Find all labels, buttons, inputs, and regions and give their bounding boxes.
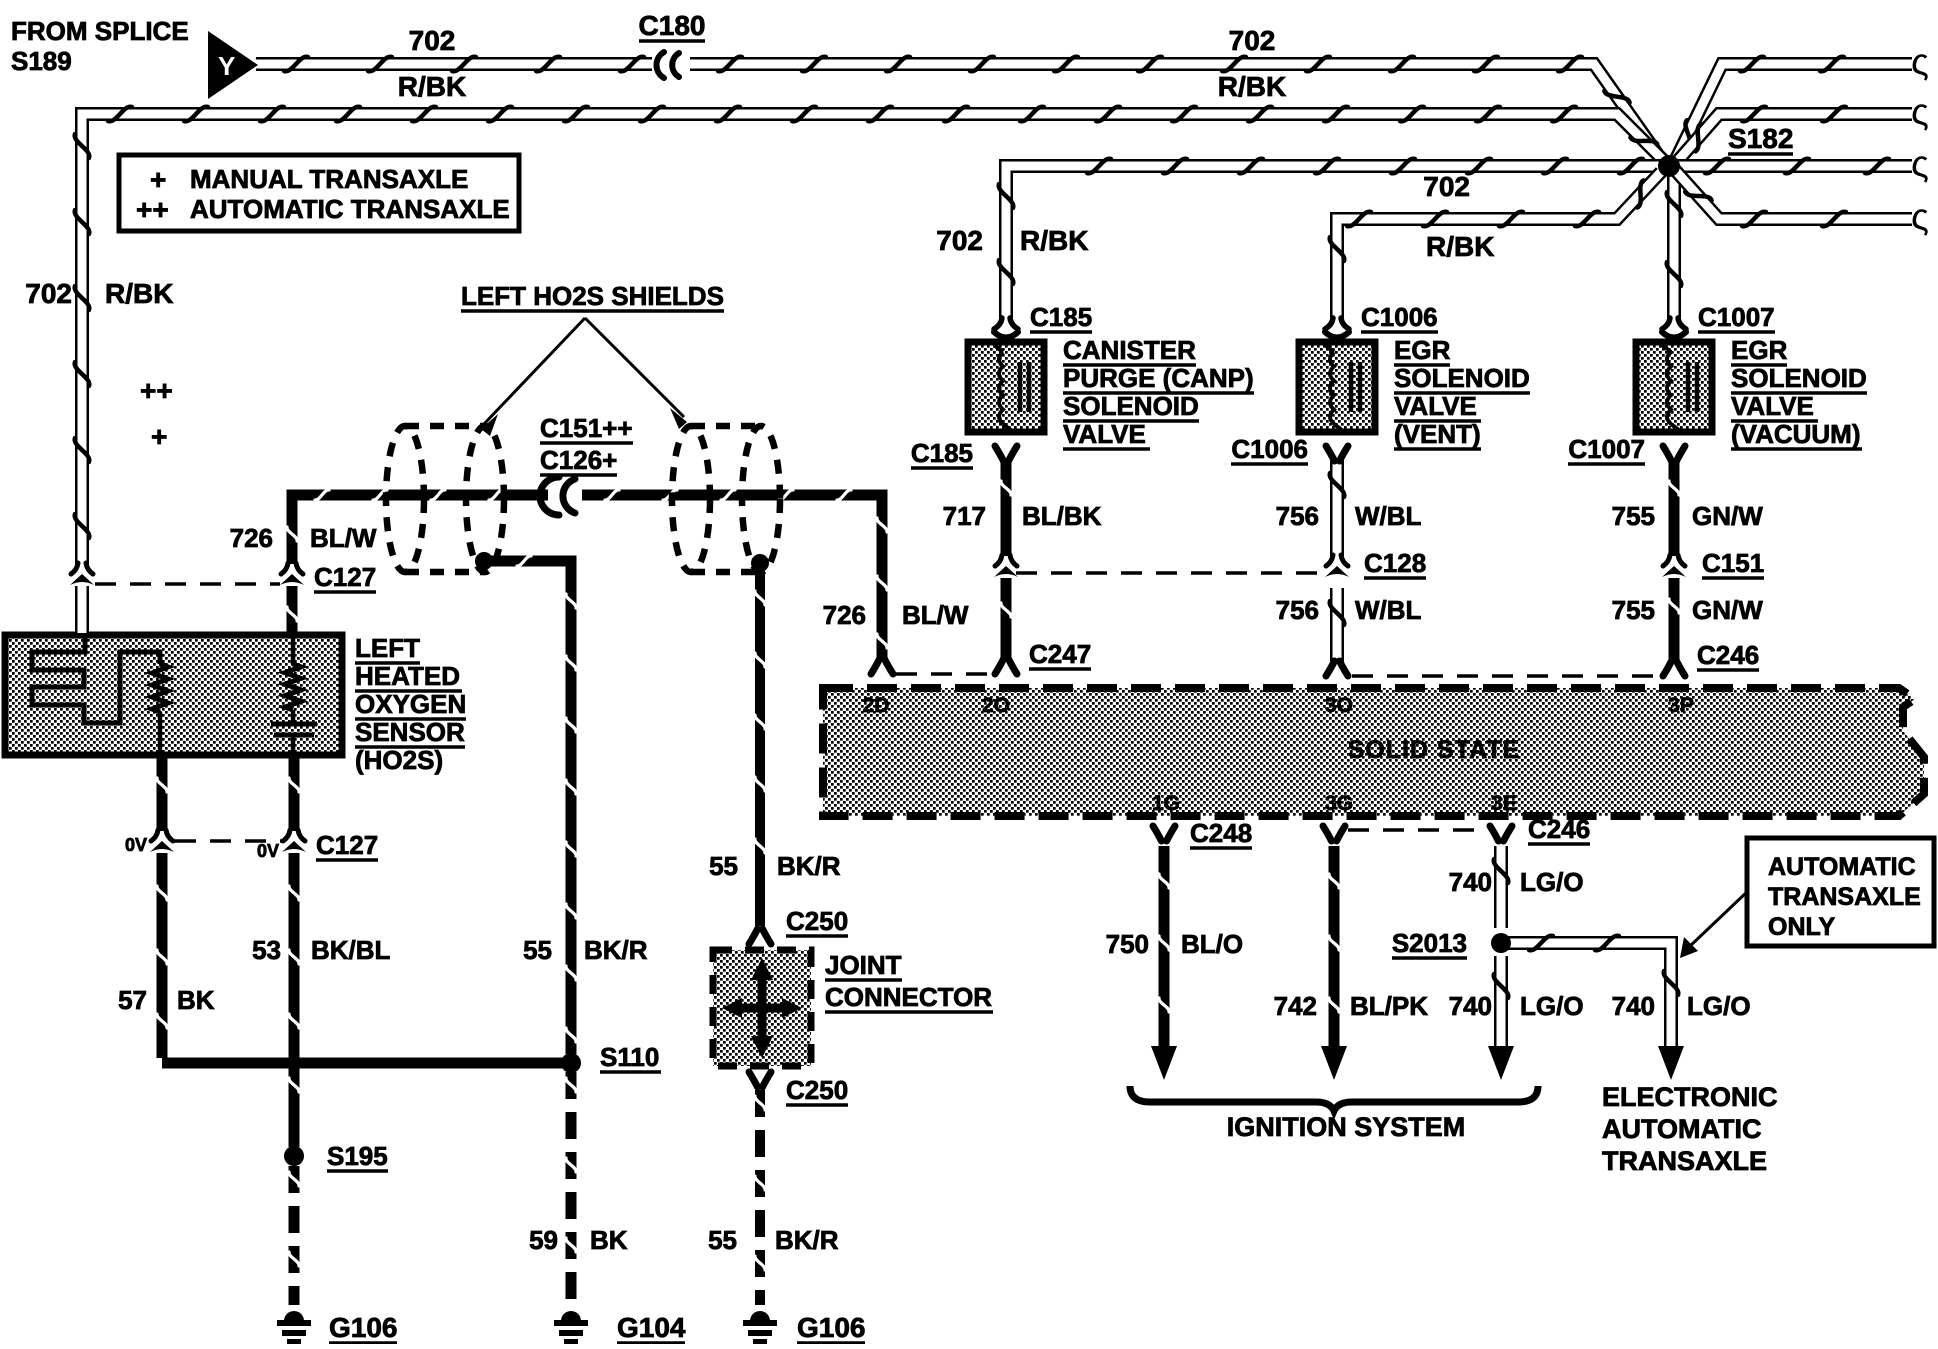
svg-text:C246: C246 <box>1528 814 1590 844</box>
svg-text:57: 57 <box>118 985 147 1015</box>
svg-text:0V: 0V <box>257 841 279 861</box>
svg-text:C185: C185 <box>1030 302 1092 332</box>
svg-text:740: 740 <box>1612 991 1655 1021</box>
svg-text:AUTOMATIC: AUTOMATIC <box>1602 1114 1761 1144</box>
svg-text:S110: S110 <box>600 1042 659 1072</box>
svg-text:AUTOMATIC TRANSAXLE: AUTOMATIC TRANSAXLE <box>190 194 510 224</box>
svg-text:VALVE: VALVE <box>1394 391 1477 421</box>
svg-text:W/BL: W/BL <box>1355 595 1422 625</box>
svg-text:TRANSAXLE: TRANSAXLE <box>1768 883 1921 911</box>
svg-text:LG/O: LG/O <box>1687 991 1751 1021</box>
svg-text:BL/PK: BL/PK <box>1350 991 1428 1021</box>
svg-text:SOLENOID: SOLENOID <box>1394 363 1530 393</box>
svg-text:GN/W: GN/W <box>1692 595 1763 625</box>
svg-text:755: 755 <box>1612 501 1655 531</box>
svg-text:BL/BK: BL/BK <box>1022 501 1102 531</box>
svg-text:++: ++ <box>140 375 173 406</box>
svg-text:740: 740 <box>1449 991 1492 1021</box>
svg-text:FROM SPLICE: FROM SPLICE <box>11 16 189 46</box>
svg-text:BK/R: BK/R <box>775 1225 839 1255</box>
svg-text:BL/W: BL/W <box>310 523 377 553</box>
svg-text:C250: C250 <box>786 906 848 936</box>
svg-text:BK/BL: BK/BL <box>311 935 391 965</box>
svg-text:55: 55 <box>523 935 552 965</box>
svg-text:2O: 2O <box>982 694 1010 717</box>
svg-text:S182: S182 <box>1728 123 1793 154</box>
svg-text:C246: C246 <box>1697 640 1759 670</box>
svg-text:S2013: S2013 <box>1392 928 1467 958</box>
svg-text:C1007: C1007 <box>1698 302 1775 332</box>
svg-text:0V: 0V <box>125 835 147 855</box>
svg-text:726: 726 <box>823 600 866 630</box>
svg-text:BK/R: BK/R <box>777 851 841 881</box>
svg-text:R/BK: R/BK <box>1020 225 1088 256</box>
svg-text:740: 740 <box>1449 867 1492 897</box>
svg-text:IGNITION SYSTEM: IGNITION SYSTEM <box>1227 1112 1466 1142</box>
svg-text:3E: 3E <box>1491 792 1517 815</box>
svg-text:Y: Y <box>218 51 235 81</box>
svg-text:LG/O: LG/O <box>1520 991 1584 1021</box>
svg-text:ς: ς <box>1911 41 1929 82</box>
svg-text:ς: ς <box>1911 91 1929 132</box>
svg-text:SOLID STATE: SOLID STATE <box>1348 736 1521 764</box>
svg-text:717: 717 <box>943 501 986 531</box>
svg-text:LEFT: LEFT <box>355 633 420 663</box>
svg-text:ς: ς <box>1911 143 1929 184</box>
svg-text:55: 55 <box>709 851 738 881</box>
svg-text:OXYGEN: OXYGEN <box>355 689 466 719</box>
svg-text:3G: 3G <box>1325 792 1353 815</box>
svg-text:756: 756 <box>1276 595 1319 625</box>
svg-text:59: 59 <box>529 1225 558 1255</box>
svg-text:C126+: C126+ <box>540 445 617 475</box>
svg-text:750: 750 <box>1106 929 1149 959</box>
svg-text:BK: BK <box>177 985 215 1015</box>
svg-text:C1007: C1007 <box>1568 434 1645 464</box>
svg-text:3O: 3O <box>1325 694 1353 717</box>
svg-text:G106: G106 <box>797 1312 866 1343</box>
svg-text:CANISTER: CANISTER <box>1063 335 1196 365</box>
svg-text:C127: C127 <box>316 830 378 860</box>
svg-text:R/BK: R/BK <box>1426 231 1494 262</box>
svg-text:G104: G104 <box>617 1312 686 1343</box>
svg-text:+: + <box>150 164 166 195</box>
svg-text:BL/W: BL/W <box>902 600 969 630</box>
svg-text:EGR: EGR <box>1731 335 1788 365</box>
svg-text:(HO2S): (HO2S) <box>355 745 443 775</box>
svg-text:LEFT HO2S SHIELDS: LEFT HO2S SHIELDS <box>461 281 724 311</box>
svg-text:BL/O: BL/O <box>1181 929 1243 959</box>
svg-text:2D: 2D <box>863 694 890 717</box>
svg-text:R/BK: R/BK <box>105 278 173 309</box>
svg-text:GN/W: GN/W <box>1692 501 1763 531</box>
svg-text:(VACUUM): (VACUUM) <box>1731 419 1861 449</box>
svg-text:702: 702 <box>25 278 72 309</box>
svg-text:702: 702 <box>409 25 456 56</box>
svg-text:MANUAL TRANSAXLE: MANUAL TRANSAXLE <box>190 164 468 194</box>
svg-text:C1006: C1006 <box>1361 302 1438 332</box>
svg-text:R/BK: R/BK <box>1218 71 1286 102</box>
svg-text:++: ++ <box>136 194 169 225</box>
svg-text:+: + <box>151 421 167 452</box>
svg-text:C151: C151 <box>1702 548 1764 578</box>
svg-text:HEATED: HEATED <box>355 661 460 691</box>
svg-text:LG/O: LG/O <box>1520 867 1584 897</box>
svg-text:S195: S195 <box>327 1141 388 1171</box>
svg-text:702: 702 <box>1229 25 1276 56</box>
svg-text:C128: C128 <box>1364 548 1426 578</box>
svg-text:C127: C127 <box>314 562 376 592</box>
svg-text:ELECTRONIC: ELECTRONIC <box>1602 1082 1778 1112</box>
svg-text:VALVE: VALVE <box>1731 391 1814 421</box>
svg-text:C248: C248 <box>1190 818 1252 848</box>
svg-text:742: 742 <box>1274 991 1317 1021</box>
svg-text:W/BL: W/BL <box>1355 501 1422 531</box>
svg-text:C1006: C1006 <box>1231 434 1308 464</box>
svg-text:(VENT): (VENT) <box>1394 419 1481 449</box>
svg-text:ς: ς <box>1911 196 1929 237</box>
svg-text:CONNECTOR: CONNECTOR <box>825 982 992 1012</box>
svg-text:702: 702 <box>1423 171 1470 202</box>
svg-text:EGR: EGR <box>1394 335 1451 365</box>
svg-text:756: 756 <box>1276 501 1319 531</box>
svg-text:BK/R: BK/R <box>584 935 648 965</box>
svg-text:R/BK: R/BK <box>398 71 466 102</box>
svg-text:3P: 3P <box>1668 694 1694 717</box>
svg-text:SOLENOID: SOLENOID <box>1731 363 1867 393</box>
svg-text:SOLENOID: SOLENOID <box>1063 391 1199 421</box>
svg-text:TRANSAXLE: TRANSAXLE <box>1602 1146 1767 1176</box>
svg-text:C180: C180 <box>639 10 706 41</box>
svg-text:C247: C247 <box>1029 639 1091 669</box>
svg-text:C151++: C151++ <box>540 413 633 443</box>
svg-text:702: 702 <box>936 225 983 256</box>
svg-text:S189: S189 <box>11 46 72 76</box>
svg-text:JOINT: JOINT <box>825 950 902 980</box>
svg-text:726: 726 <box>230 523 273 553</box>
svg-text:PURGE (CANP): PURGE (CANP) <box>1063 363 1254 393</box>
svg-text:1G: 1G <box>1152 792 1180 815</box>
svg-text:G106: G106 <box>329 1312 398 1343</box>
svg-text:755: 755 <box>1612 595 1655 625</box>
svg-text:C185: C185 <box>911 438 973 468</box>
svg-text:ONLY: ONLY <box>1768 913 1835 941</box>
svg-text:55: 55 <box>708 1225 737 1255</box>
svg-text:SENSOR: SENSOR <box>355 717 465 747</box>
svg-text:C250: C250 <box>786 1075 848 1105</box>
svg-text:53: 53 <box>252 935 281 965</box>
svg-text:VALVE: VALVE <box>1063 419 1146 449</box>
svg-text:BK: BK <box>590 1225 628 1255</box>
svg-text:AUTOMATIC: AUTOMATIC <box>1768 853 1916 881</box>
